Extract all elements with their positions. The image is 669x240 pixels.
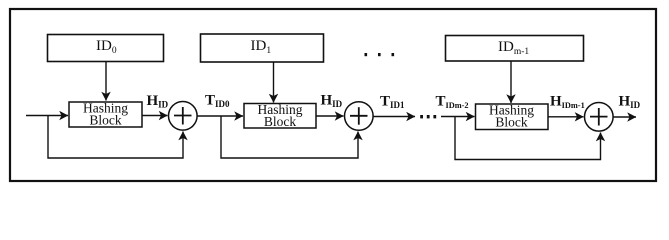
svg-text:Block: Block bbox=[495, 115, 527, 130]
feedback wire 1 bbox=[48, 116, 183, 159]
output wire, label HID bbox=[613, 116, 636, 118]
top ellipsis dots bbox=[365, 53, 395, 56]
svg-text:Block: Block bbox=[264, 114, 296, 129]
box IDm-1 bbox=[446, 36, 584, 62]
box ID0 bbox=[48, 35, 164, 62]
wire xor1 to hashing2, label TID0 bbox=[197, 115, 243, 117]
wire hashing1 to xor1, label HID bbox=[142, 115, 168, 117]
input wire bbox=[26, 115, 68, 117]
box ID1 bbox=[201, 34, 324, 62]
wire xor2 out, label TID1 bbox=[373, 116, 415, 118]
wire hashing2 to xor2, label HID bbox=[316, 115, 344, 117]
wire into hashing3, label TIDm-2 bbox=[441, 116, 475, 118]
wire ID1 to hashing block 2 bbox=[273, 62, 275, 103]
wire IDm-1 to hashing block 3 bbox=[510, 61, 512, 103]
outer border frame bbox=[10, 9, 656, 181]
xor adder 3 bbox=[585, 103, 614, 132]
xor adder 1 bbox=[169, 102, 198, 131]
feedback wire 2 bbox=[221, 116, 358, 158]
wire ID0 to hashing block 1 bbox=[105, 62, 107, 101]
hashing block 1 bbox=[69, 102, 142, 127]
hashing block 3 bbox=[476, 104, 549, 130]
xor adder 2 bbox=[345, 102, 374, 131]
ellipsis dots on wire bbox=[420, 115, 436, 118]
wire hashing3 to xor3, label HIDm-1 bbox=[548, 116, 584, 118]
svg-text:Block: Block bbox=[89, 113, 121, 128]
hashing block 2 bbox=[244, 104, 316, 129]
feedback wire 3 bbox=[455, 117, 601, 160]
